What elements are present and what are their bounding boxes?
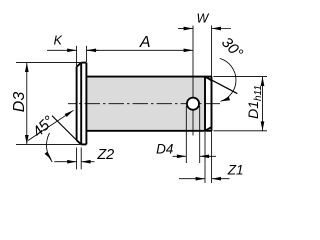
shank outline (86, 77, 211, 131)
D1 bottom (down) (261, 121, 265, 130)
Z2 extensions (76, 148, 78, 170)
Z2 dim tails (54, 161, 76, 163)
W right (left-pointing) (212, 27, 221, 31)
W dim tails (178, 28, 193, 30)
30 deg arc (220, 58, 236, 101)
centerline axis (68, 103, 220, 105)
hole vertical centerline (192, 26, 194, 136)
svg-text:Z2: Z2 (96, 147, 114, 163)
K left (right-pointing) (67, 48, 76, 52)
45 deg arc (46, 133, 52, 162)
K extensions (76, 46, 78, 66)
A right (right-pointing) (184, 48, 193, 52)
D3 dim line (26, 63, 28, 145)
svg-text:D3: D3 (11, 92, 28, 113)
D1 dim line (262, 77, 264, 131)
30 deg chamfer extension line (205, 77, 237, 94)
shank fill (86, 77, 205, 130)
thin lines (16, 26, 267, 184)
Z1 dim tails (179, 178, 205, 180)
svg-text:D4: D4 (156, 142, 173, 157)
W right extension above and below pin (211, 26, 213, 81)
30 arc arrow (down-left at end) (221, 97, 231, 102)
D3 top (up) (25, 63, 29, 72)
svg-text:A: A (139, 34, 151, 51)
D1 extensions (214, 76, 268, 78)
D4 dim tails (173, 155, 187, 157)
head outline (77, 63, 87, 145)
A dim line + K right tail (87, 49, 193, 51)
Z2 left (right-pointing) (67, 160, 76, 164)
D1 top (up) (261, 77, 265, 86)
Z1 right (left-pointing) (212, 177, 221, 181)
Z2 right (left-pointing) (81, 160, 90, 164)
Z1 extension (left) (204, 132, 206, 183)
D3 extensions (16, 62, 80, 64)
arrowheads (25, 27, 264, 181)
D4 left (right-pointing) (177, 154, 186, 158)
D3 bottom (down) (25, 135, 29, 144)
svg-text:K: K (54, 34, 63, 48)
K right / A left (left-pointing) (87, 48, 96, 52)
45 deg leader line (28, 110, 74, 140)
svg-text:W: W (196, 12, 209, 26)
45 leader arrow (up-right) (65, 110, 74, 117)
K left tail (47, 49, 77, 51)
D4 right (left-pointing) (200, 154, 209, 158)
D4 extensions (185, 106, 187, 163)
45 arc arrow (down-right at end) (45, 151, 52, 160)
svg-text:Z1: Z1 (227, 162, 244, 177)
cross hole (187, 98, 199, 110)
45 deg chamfer extension line (52, 116, 77, 141)
Z1 left (right-pointing) (196, 177, 205, 181)
W left (right-pointing) (184, 27, 193, 31)
